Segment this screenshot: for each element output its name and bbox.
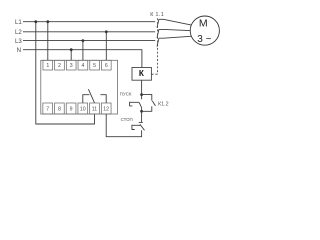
node junction dot on L3 at x83 bbox=[82, 39, 85, 42]
wire L3 bbox=[23, 40, 155, 42]
node junction dot on N at x71 bbox=[70, 48, 73, 51]
node junction dot on L1 at x36 bbox=[34, 20, 37, 23]
terminal 10 bbox=[78, 103, 88, 114]
motor M1 circle bbox=[190, 16, 219, 45]
node junction dot on L1 at x48 bbox=[46, 20, 49, 23]
svg-text:L1: L1 bbox=[15, 19, 22, 26]
svg-text:ПУСК: ПУСК bbox=[120, 92, 132, 97]
wire terminal 12 down to stop button bbox=[106, 114, 141, 137]
svg-text:4: 4 bbox=[81, 63, 84, 69]
contactor contact K1.1 pole on L2 bbox=[157, 29, 159, 37]
terminal 6 bbox=[101, 60, 111, 70]
terminal 9 bbox=[66, 103, 76, 114]
relay internal contact: fixed contact from terminal 10 bbox=[83, 95, 90, 103]
svg-text:9: 9 bbox=[70, 106, 73, 112]
wire L1 drop to terminal 11 (left L-path) bbox=[36, 22, 95, 124]
node junction dot below start button bbox=[140, 110, 143, 113]
terminal 2 bbox=[55, 60, 65, 70]
svg-text:M: M bbox=[199, 18, 208, 30]
terminal 5 bbox=[90, 60, 100, 70]
terminal 8 bbox=[55, 103, 65, 114]
wire N drop to terminal 3 bbox=[70, 50, 72, 61]
coil K box bbox=[132, 68, 151, 81]
svg-text:L2: L2 bbox=[15, 29, 22, 36]
auxiliary contact K1.2 moving contact bbox=[152, 101, 155, 106]
svg-text:11: 11 bbox=[92, 106, 97, 112]
svg-text:10: 10 bbox=[80, 106, 86, 112]
auxiliary contact K1.2 branch wires bbox=[142, 95, 152, 112]
wire L3 drop to terminal 4 bbox=[82, 41, 84, 61]
svg-text:К 1.1: К 1.1 bbox=[150, 12, 164, 18]
node junction dot on L2 at x106 bbox=[105, 30, 108, 33]
terminal 7 bbox=[43, 103, 53, 114]
relay internal contact: fixed contact from terminal 12 bbox=[100, 95, 106, 103]
wire coil K bottom to start button bbox=[141, 80, 143, 99]
svg-text:8: 8 bbox=[58, 106, 61, 112]
stop button STOP upper wire bbox=[141, 111, 143, 122]
svg-text:7: 7 bbox=[46, 106, 49, 112]
stop button STOP moving contact bbox=[140, 124, 145, 130]
mechanical link dashed line K1.1 to coil bbox=[157, 18, 159, 74]
svg-text:К1.2: К1.2 bbox=[158, 101, 169, 107]
svg-text:3 ~: 3 ~ bbox=[197, 34, 211, 45]
start button PUSK lower wire bbox=[141, 108, 143, 112]
svg-text:3: 3 bbox=[70, 63, 73, 69]
svg-text:N: N bbox=[17, 47, 21, 54]
terminal 1 bbox=[43, 60, 53, 70]
terminal 3 bbox=[66, 60, 76, 70]
contactor contact K1.1 pole on L1 bbox=[157, 19, 159, 27]
terminal 11 bbox=[90, 103, 100, 114]
wire N to coil K bbox=[23, 50, 142, 68]
svg-text:6: 6 bbox=[105, 63, 108, 69]
contactor contact K1.1 pole on L3 bbox=[157, 38, 159, 46]
wire L1 bbox=[23, 21, 155, 23]
svg-text:1: 1 bbox=[46, 63, 49, 69]
relay device box U1 bbox=[41, 60, 118, 114]
svg-text:L3: L3 bbox=[15, 38, 22, 45]
wire L2 drop to terminal 6 bbox=[105, 32, 107, 61]
stop button STOP fixed contact bar bbox=[139, 121, 143, 123]
wire L1 drop to terminal 1 bbox=[47, 22, 49, 61]
wire L2 bbox=[23, 31, 155, 33]
svg-text:2: 2 bbox=[58, 63, 61, 69]
node junction dot above start button bbox=[140, 93, 143, 96]
start button PUSK operator bbox=[130, 102, 139, 107]
relay internal contact: moving contact from terminal 11 bbox=[88, 89, 94, 103]
terminal 12 bbox=[101, 103, 111, 114]
svg-text:СТОП: СТОП bbox=[121, 117, 133, 122]
start button PUSK moving contact bbox=[139, 103, 142, 108]
svg-text:5: 5 bbox=[93, 63, 96, 69]
svg-text:12: 12 bbox=[103, 106, 109, 112]
terminal 4 bbox=[78, 60, 88, 70]
stop button STOP operator bbox=[132, 125, 140, 130]
